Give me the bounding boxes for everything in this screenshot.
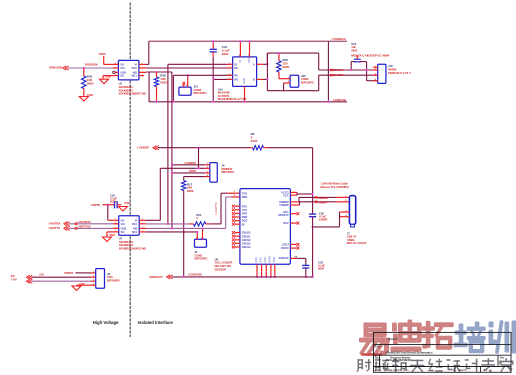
junction x173 gnd bbox=[172, 101, 174, 103]
svg-text:RO: RO bbox=[234, 78, 238, 82]
wire DC to J8 pin2 bbox=[31, 276, 96, 278]
svg-text:BIP100PC: BIP100PC bbox=[194, 91, 207, 95]
node LUARTTX rotated label bbox=[214, 202, 218, 214]
svg-text:2: 2 bbox=[186, 85, 187, 87]
U6 TXD RXD pin numbers bbox=[234, 191, 236, 197]
port RXD/SDN bbox=[49, 66, 68, 71]
U5 left pin stubs bbox=[103, 64, 118, 75]
U10 pin numbers bbox=[229, 63, 230, 80]
svg-text:USBDP: USBDP bbox=[280, 203, 289, 207]
svg-text:1: 1 bbox=[115, 71, 116, 73]
svg-text:High Voltage: High Voltage bbox=[93, 320, 119, 325]
svg-text:7-9V: 7-9V bbox=[11, 278, 17, 282]
svg-text:2: 2 bbox=[201, 238, 202, 240]
svg-text:RXD: RXD bbox=[242, 195, 248, 199]
wire U10 pin3 row bbox=[173, 74, 232, 76]
junction bus-corner bbox=[327, 101, 329, 103]
svg-text:MAX3485EETA+CT-ND: MAX3485EETA+CT-ND bbox=[218, 97, 247, 101]
svg-text:Sheet 1: Sheet 1 bbox=[458, 369, 467, 372]
svg-text:+9V: +9V bbox=[39, 273, 44, 277]
connector J21 CON2 bbox=[179, 85, 207, 96]
junction pin4 tap bbox=[212, 78, 214, 80]
svg-text:GND: GND bbox=[105, 74, 111, 78]
transistor U10 MAX3485 bbox=[233, 57, 257, 87]
U6 right no-connects bbox=[290, 212, 299, 249]
wire B-path bbox=[263, 53, 319, 91]
resistor R32 120 bbox=[277, 52, 290, 79]
wire J7 shield path bbox=[312, 212, 340, 228]
svg-text:GND: GND bbox=[109, 233, 115, 237]
node RS485B label bbox=[330, 73, 343, 77]
svg-text:RXD/SDN: RXD/SDN bbox=[85, 63, 98, 67]
svg-text:UARTRX: UARTRX bbox=[49, 221, 61, 225]
svg-text:NC1: NC1 bbox=[132, 74, 138, 78]
U10 right pin stubs bbox=[257, 64, 263, 79]
wire LUSBDP drop bbox=[198, 148, 200, 169]
svg-text:Mold-IO: Mold-IO bbox=[388, 338, 397, 341]
node RS485A label bbox=[330, 68, 343, 72]
svg-text:DMINUS: DMINUS bbox=[222, 167, 233, 171]
wire U7 row3 long RXD bbox=[146, 197, 240, 229]
svg-text:4: 4 bbox=[142, 74, 143, 76]
U5 right pin stubs bbox=[139, 64, 146, 75]
wire 3V3OUT bbox=[290, 257, 305, 266]
svg-text:0603: 0603 bbox=[318, 267, 324, 271]
node UARTTX0 label bbox=[75, 225, 91, 230]
svg-text:1.5M A/B White Cable: 1.5M A/B White Cable bbox=[321, 182, 349, 186]
svg-text:ADUM3301WARZ-ND: ADUM3301WARZ-ND bbox=[119, 247, 146, 251]
svg-text:ADUM3301WARZ-ND: ADUM3301WARZ-ND bbox=[119, 92, 146, 96]
svg-text:VOA: VOA bbox=[131, 66, 137, 70]
wire C21 down bbox=[212, 57, 214, 102]
svg-text:NC1: NC1 bbox=[132, 230, 138, 234]
svg-text:0603: 0603 bbox=[160, 80, 167, 84]
svg-text:DCD: DCD bbox=[242, 219, 248, 223]
svg-text:USBDP: USBDP bbox=[318, 200, 328, 204]
cable note bbox=[321, 182, 350, 189]
op-amp U5 ADuM isolator bbox=[118, 60, 138, 80]
svg-text:LUSBDP: LUSBDP bbox=[137, 146, 149, 150]
wire U10 pin4 row bbox=[213, 78, 232, 80]
label High Voltage bbox=[93, 320, 119, 325]
svg-text:0402: 0402 bbox=[251, 139, 258, 143]
op-amp U7 ADuM isolator bbox=[119, 216, 140, 236]
svg-text:CBUS0: CBUS0 bbox=[242, 231, 251, 235]
svg-text:UARTRX0: UARTRX0 bbox=[78, 220, 92, 224]
U7 left pin stubs bbox=[107, 224, 119, 232]
svg-text:1: 1 bbox=[229, 66, 230, 68]
wire U7 gnd pin bbox=[106, 232, 108, 237]
wire USBDM bbox=[290, 197, 349, 202]
svg-text:1: 1 bbox=[196, 238, 197, 240]
connector pin numbers bbox=[93, 55, 289, 286]
svg-text:0603: 0603 bbox=[351, 48, 358, 52]
resistor R38 10K bbox=[154, 72, 167, 102]
svg-text:TXD: TXD bbox=[242, 191, 247, 195]
resistor R30 10K bbox=[82, 68, 94, 97]
svg-text:UARTTX: UARTTX bbox=[49, 226, 60, 230]
J21 pin2 wire up bbox=[187, 75, 189, 87]
svg-text:0603: 0603 bbox=[110, 200, 116, 204]
wire C24 left leg bbox=[350, 62, 352, 72]
svg-text:RXD/SDN: RXD/SDN bbox=[49, 66, 62, 70]
svg-text:VSP5O: VSP5O bbox=[64, 271, 74, 275]
svg-text:EVAL-ADuM3160EBZ: EVAL-ADuM3160EBZ bbox=[386, 359, 412, 362]
junction C20 gnd bbox=[312, 276, 314, 278]
wire U5 pin1 up to bus bbox=[146, 41, 149, 64]
node VSP5O label bbox=[91, 203, 101, 207]
resistor R16 0 bbox=[250, 132, 268, 150]
svg-text:Mouser 571-1487588-2: Mouser 571-1487588-2 bbox=[321, 185, 350, 189]
J1 pin stubs up bbox=[196, 227, 203, 239]
svg-text:BIP100PV: BIP100PV bbox=[107, 279, 120, 283]
U6 VCC wires bbox=[290, 192, 313, 195]
J19 pin numbers bbox=[375, 66, 377, 81]
J20 pin stubs bbox=[279, 79, 290, 83]
U5 pin3 inversion bubble bbox=[113, 71, 115, 73]
wire RS485B bbox=[319, 74, 378, 76]
wire USBDP bbox=[290, 202, 349, 205]
ground U5 pin4 bbox=[100, 74, 112, 83]
node USBDM label bbox=[315, 196, 329, 200]
svg-text:DTR: DTR bbox=[242, 212, 247, 216]
svg-text:GND: GND bbox=[242, 78, 246, 84]
svg-text:WM 17x 3443-R: WM 17x 3443-R bbox=[347, 241, 367, 245]
wire bus right vertical bbox=[327, 41, 329, 102]
svg-text:2: 2 bbox=[207, 167, 208, 169]
svg-text:CBUS2: CBUS2 bbox=[242, 238, 251, 242]
node LGNDUSB label bbox=[188, 272, 202, 276]
svg-text:0603: 0603 bbox=[222, 52, 229, 56]
connector J8 bbox=[96, 269, 120, 289]
wire U7 row2 long TXD bbox=[146, 223, 189, 225]
wire UARTTX to U7 bbox=[69, 227, 119, 229]
ground R30 bbox=[79, 93, 93, 101]
svg-text:VSP5O: VSP5O bbox=[91, 203, 101, 207]
node VSP5 label bbox=[99, 52, 107, 56]
wire RS485A bbox=[319, 69, 378, 71]
wire U7 row4 bbox=[146, 231, 197, 233]
svg-text:8: 8 bbox=[239, 55, 240, 57]
svg-text:MOLEX C-HEADER IC 50M4: MOLEX C-HEADER IC 50M4 bbox=[351, 54, 389, 58]
svg-text:VOA: VOA bbox=[132, 222, 138, 226]
port GND2OUT bbox=[149, 275, 172, 279]
svg-text:NC2: NC2 bbox=[283, 221, 289, 225]
junction R17 gnd2 bbox=[183, 276, 185, 278]
wire GND1 bottom bus bbox=[149, 101, 347, 103]
svg-text:Friday, April 08, 2011: Friday, April 08, 2011 bbox=[385, 369, 409, 372]
svg-text:GND: GND bbox=[87, 93, 93, 97]
wire U5 pin2 long to U10 RO bbox=[146, 67, 233, 69]
svg-text:AGND: AGND bbox=[268, 255, 271, 262]
svg-text:Date:: Date: bbox=[375, 369, 381, 372]
svg-text:Size: Size bbox=[375, 358, 380, 360]
port UARTRX bbox=[49, 221, 70, 226]
wire J6 pin4 bbox=[184, 176, 210, 178]
isolation barrier line bbox=[129, 3, 131, 338]
svg-text:6: 6 bbox=[142, 63, 143, 65]
U10 left pin stubs bbox=[227, 64, 233, 79]
svg-text:J19: J19 bbox=[388, 64, 393, 68]
svg-text:1: 1 bbox=[182, 85, 183, 87]
C24 molex note bbox=[351, 54, 389, 58]
svg-text:B: B bbox=[253, 78, 255, 82]
svg-text:GND: GND bbox=[255, 257, 258, 263]
wire RXD/SDN to U5 bbox=[68, 67, 119, 69]
svg-text:VIA: VIA bbox=[120, 66, 124, 70]
svg-text:LGNDUSB: LGNDUSB bbox=[188, 272, 202, 276]
svg-text:UARTTX0: UARTTX0 bbox=[78, 225, 91, 229]
svg-text:BIP100PC: BIP100PC bbox=[195, 257, 208, 261]
capacitor C33 bbox=[302, 261, 325, 278]
U5 ref text bbox=[119, 82, 146, 96]
U10 ref text bbox=[218, 88, 247, 101]
U6 CBUS pins no-connect bbox=[232, 231, 240, 248]
wire vertical DI down bbox=[167, 64, 169, 224]
wire J6 pin3 bbox=[171, 172, 210, 174]
svg-text:CTS: CTS bbox=[242, 208, 247, 212]
svg-text:GND: GND bbox=[264, 257, 267, 263]
wire VSP5 to U5 pin1 bbox=[104, 56, 119, 64]
wire UARTRX to U7 bbox=[69, 223, 119, 225]
wire v3 down to U7 bbox=[159, 168, 161, 220]
svg-text:4: 4 bbox=[229, 63, 230, 65]
connector J7 USB-B bbox=[347, 196, 367, 245]
svg-text:OSCO: OSCO bbox=[281, 246, 289, 250]
wire VSP5O bbox=[103, 204, 114, 206]
wire LUSBDP main bbox=[158, 147, 250, 149]
svg-text:VIA: VIA bbox=[121, 222, 125, 226]
connector J20 CON2 bbox=[290, 74, 314, 88]
resistor R21 0 bbox=[189, 213, 209, 226]
svg-text:GND: GND bbox=[124, 201, 130, 205]
resistor R17 10K bbox=[182, 177, 194, 194]
U5 pin numbers bbox=[115, 63, 143, 76]
svg-text:2: 2 bbox=[229, 74, 230, 76]
svg-text:7: 7 bbox=[248, 55, 249, 57]
node LUSBVBUS label top bbox=[332, 37, 347, 41]
capacitor C21 bbox=[210, 41, 230, 57]
svg-text:3: 3 bbox=[207, 171, 208, 173]
svg-text:RI: RI bbox=[242, 222, 245, 226]
junction LUSBDP bbox=[198, 147, 200, 149]
wire U5 GND2 pin4 to gnd arrow bbox=[102, 76, 104, 79]
U6 ref text bbox=[215, 257, 233, 271]
svg-text:CBUS4: CBUS4 bbox=[242, 245, 251, 249]
ground C18 bbox=[118, 201, 130, 211]
svg-text:RTS: RTS bbox=[242, 204, 247, 208]
svg-text:RE: RE bbox=[234, 73, 238, 77]
svg-text:LUSBVBUS: LUSBVBUS bbox=[332, 37, 347, 41]
wire J6 pin1 bbox=[171, 164, 210, 166]
svg-text:Title: Title bbox=[375, 346, 381, 349]
svg-text:SO: SO bbox=[121, 230, 125, 234]
U6 gnd pins down bbox=[256, 264, 276, 278]
capacitor C20 bbox=[309, 212, 328, 277]
svg-text:0603: 0603 bbox=[87, 81, 94, 85]
U7 pin numbers bbox=[115, 219, 143, 233]
junction C21 gnd bbox=[212, 101, 214, 103]
svg-text:RESET#: RESET# bbox=[279, 213, 290, 217]
svg-text:USBDM: USBDM bbox=[318, 196, 329, 200]
wire J6 pin2 bbox=[160, 167, 210, 169]
U10 gnd pin down bbox=[244, 86, 246, 102]
svg-text:1: 1 bbox=[207, 163, 208, 165]
svg-text:7: 7 bbox=[142, 66, 143, 68]
svg-text:BIP130PV: BIP130PV bbox=[222, 170, 235, 174]
svg-text:J8: J8 bbox=[107, 272, 111, 276]
svg-text:OSCI: OSCI bbox=[282, 243, 289, 247]
transistor U6 FT232RL bbox=[240, 189, 291, 265]
svg-text:0805: 0805 bbox=[283, 65, 290, 69]
wire A-path bbox=[263, 53, 319, 70]
title block bbox=[374, 332, 512, 372]
svg-text:VL: VL bbox=[238, 59, 242, 63]
svg-text:CBUS3: CBUS3 bbox=[242, 242, 251, 246]
svg-text:CBUS1: CBUS1 bbox=[242, 234, 251, 238]
svg-text:VI: VI bbox=[135, 218, 138, 222]
svg-text:VCC: VCC bbox=[247, 57, 251, 63]
wire C24 right leg bbox=[366, 62, 378, 81]
svg-text:VO: VO bbox=[120, 63, 124, 67]
svg-text:J6: J6 bbox=[222, 163, 226, 167]
node +9V label bbox=[39, 273, 44, 277]
connector J6 bbox=[210, 163, 235, 183]
svg-text:Isolated Interface: Isolated Interface bbox=[138, 320, 174, 325]
svg-text:RS485A: RS485A bbox=[333, 68, 344, 72]
J7 pin stubs bbox=[340, 212, 350, 217]
svg-text:3: 3 bbox=[229, 78, 230, 80]
svg-text:VSP5: VSP5 bbox=[99, 52, 107, 56]
svg-text:DSR: DSR bbox=[242, 215, 248, 219]
wire U10 pin1 DI row bbox=[168, 63, 227, 65]
wire R21 to FT232 TXD bbox=[210, 193, 240, 224]
svg-text:5TM: 5TM bbox=[107, 275, 113, 279]
svg-text:A: A bbox=[253, 62, 255, 66]
wire VSP5O to J8 bbox=[76, 272, 96, 274]
wire VSP5O to U7 pin1 bbox=[108, 205, 119, 221]
junction VSP5O bbox=[107, 204, 109, 206]
J7 pin numbers bbox=[345, 196, 347, 217]
junction R38 gnd bbox=[156, 101, 158, 103]
node VSP5O label J8 bbox=[64, 271, 74, 275]
svg-text:B: B bbox=[376, 361, 378, 365]
ground J8 bbox=[72, 282, 85, 290]
wire U5 pin3 east bbox=[146, 71, 172, 73]
junction R38 tap bbox=[156, 71, 158, 73]
svg-text:LGNDUSB: LGNDUSB bbox=[333, 98, 346, 102]
wire VBUS top bus bbox=[149, 40, 347, 42]
svg-text:GND: GND bbox=[260, 257, 263, 263]
port DC input bbox=[11, 274, 33, 283]
svg-text:8: 8 bbox=[115, 74, 116, 76]
svg-text:0603: 0603 bbox=[187, 189, 194, 193]
U7 right pin stubs bbox=[139, 220, 146, 232]
J19 pin stubs bbox=[373, 67, 378, 80]
wire U7 row1 corner up bbox=[146, 219, 160, 221]
label Isolated Interface bbox=[138, 320, 174, 325]
svg-text:GND2OUT: GND2OUT bbox=[149, 275, 163, 279]
svg-text:VCC: VCC bbox=[283, 193, 289, 197]
node RXD/SDN net label bbox=[85, 63, 98, 67]
svg-text:DI: DI bbox=[234, 62, 237, 66]
svg-text:DE: DE bbox=[234, 66, 238, 70]
J21 pin1 stub bbox=[182, 82, 185, 87]
U6 modem pins no-connect bbox=[232, 205, 240, 226]
port UARTTX bbox=[49, 226, 70, 231]
svg-text:2: 2 bbox=[115, 66, 116, 68]
svg-text:1: 1 bbox=[288, 77, 289, 79]
svg-text:of 1: of 1 bbox=[483, 369, 488, 372]
wire GND2 bus bbox=[171, 276, 312, 278]
ground U7 bbox=[103, 233, 116, 241]
node LGNDUSB label bottom bbox=[333, 98, 346, 102]
svg-text:VO: VO bbox=[121, 218, 125, 222]
svg-text:3: 3 bbox=[115, 63, 116, 65]
svg-text:ADuM3160 Eval Board Schematics: ADuM3160 Eval Board Schematics bbox=[385, 351, 433, 355]
port LUSBDP bbox=[137, 146, 159, 150]
wire gnd drop x149 bbox=[148, 72, 150, 102]
svg-text:3V3OUT: 3V3OUT bbox=[279, 256, 290, 260]
svg-text:TEST: TEST bbox=[273, 256, 276, 263]
junction C21 bus bbox=[212, 40, 214, 42]
svg-text:SO: SO bbox=[120, 74, 124, 78]
node UARTRX0 label bbox=[75, 220, 91, 225]
svg-text:RS485B: RS485B bbox=[333, 73, 344, 77]
wire R17 to GND2OUT bbox=[183, 191, 185, 277]
svg-text:VOB: VOB bbox=[121, 227, 127, 231]
svg-text:VIB: VIB bbox=[133, 227, 137, 231]
wire J8 gnd pin bbox=[77, 284, 96, 286]
svg-text:VI: VI bbox=[134, 63, 137, 67]
node LUSBDP label J6 bbox=[185, 161, 197, 165]
svg-text:1: 1 bbox=[93, 271, 94, 273]
node USBDP label bbox=[315, 200, 328, 204]
capacitor C24 bbox=[351, 42, 366, 62]
svg-text:3: 3 bbox=[93, 280, 94, 282]
svg-text:LUARTTX: LUARTTX bbox=[214, 202, 218, 214]
junction R30 tap bbox=[83, 67, 85, 69]
connector J1 CON2 bbox=[195, 239, 208, 260]
svg-text:RS485: RS485 bbox=[388, 68, 397, 72]
wire R16 to VCC corner bbox=[267, 148, 313, 214]
watermark shepin tagline bbox=[357, 358, 513, 372]
svg-text:2: 2 bbox=[93, 276, 94, 278]
svg-text:Rev: Rev bbox=[500, 358, 505, 360]
svg-text:BIP100PC: BIP100PC bbox=[301, 80, 314, 84]
svg-text:2: 2 bbox=[288, 81, 289, 83]
svg-text:28-BSOP: 28-BSOP bbox=[215, 267, 227, 271]
svg-text:5: 5 bbox=[142, 71, 143, 73]
svg-text:TERM BLK 2.54 4: TERM BLK 2.54 4 bbox=[388, 71, 411, 75]
wire gnd drop x173 bbox=[172, 75, 174, 102]
U7 ref text bbox=[119, 237, 146, 251]
junction J21 pin2 bbox=[187, 74, 189, 76]
capacitor C18 bbox=[110, 193, 121, 208]
wire vertical RO-path down bbox=[171, 72, 173, 228]
wire DC to J8 pin3 bbox=[31, 280, 96, 282]
U10 top pins to bus bbox=[239, 40, 250, 57]
node PWR label bbox=[189, 169, 196, 173]
watermark yidituo peixun bbox=[360, 320, 516, 356]
connector J19 RS485 bbox=[378, 64, 411, 83]
svg-text:100MF: 100MF bbox=[319, 218, 328, 222]
